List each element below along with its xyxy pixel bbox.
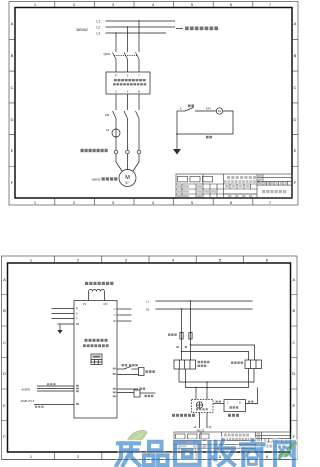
wires from inverter to contactor: [116, 94, 139, 110]
svg-text:A: A: [3, 277, 6, 282]
zone letters left: [3, 277, 6, 439]
wire to coil: [195, 110, 216, 112]
junction dots: [115, 32, 117, 34]
svg-text:C: C: [292, 340, 295, 345]
rs485 tiny labels: [47, 383, 56, 385]
svg-text:4X2P6: 4X2P6: [22, 388, 31, 392]
zone letters left: [11, 21, 14, 185]
wire L3: [106, 32, 167, 34]
pin marks right: [113, 368, 116, 398]
svg-text:B: B: [3, 308, 6, 313]
label SB: [188, 105, 194, 108]
svg-text:D: D: [3, 371, 6, 376]
terminal stub TB: [117, 374, 139, 376]
pin W wire: [117, 320, 132, 322]
pin R wire: [52, 308, 75, 310]
svg-text:L1: L1: [97, 20, 101, 24]
run wire to terminal: [132, 368, 139, 370]
svg-text:C: C: [227, 402, 229, 405]
svg-text:TA: TA: [106, 128, 109, 132]
relay wire DI: [117, 388, 138, 390]
label DC reactor DL1: [85, 282, 113, 285]
zone ticks: [9, 2, 298, 206]
svg-text:C: C: [11, 85, 14, 90]
svg-text:A: A: [292, 277, 295, 282]
label main unit: [228, 414, 239, 417]
label coil 380V: [198, 361, 210, 367]
relay coil KA1: [134, 390, 140, 397]
sheet1 power schematic: [76, 20, 218, 187]
label right: [145, 395, 154, 397]
tap L: [190, 301, 192, 360]
analog wire: [34, 404, 74, 406]
ultrasonic level meter dashed box: [192, 400, 214, 413]
svg-text:E: E: [294, 148, 297, 153]
wires to motor: [116, 154, 139, 171]
svg-text:E: E: [292, 403, 295, 408]
drawing number: [261, 445, 285, 448]
wire stub to cabinet label: [176, 28, 183, 30]
terminal circles: [114, 150, 118, 154]
svg-text:U: U: [114, 308, 116, 311]
wire labels U1 V1: [177, 346, 188, 348]
svg-text:D: D: [292, 371, 295, 376]
zone numbers bottom: [34, 200, 272, 205]
relay coil KA: [216, 108, 222, 114]
wire L2: [106, 26, 176, 28]
sheet2 inner border: [8, 263, 291, 452]
svg-text:A: A: [11, 21, 14, 26]
relay wire COM: [117, 392, 134, 394]
green leaf: [127, 430, 148, 444]
zone numbers top: [34, 2, 272, 7]
pin S wire: [52, 313, 75, 315]
keypad box: [91, 354, 102, 365]
run terminal stub TA: [117, 368, 124, 370]
rs485 wires: [37, 386, 74, 391]
svg-text:C: C: [3, 340, 6, 345]
inverter main box: [74, 301, 117, 419]
fuse 2FU: [168, 334, 177, 336]
sheet2 inverter section: [21, 282, 156, 418]
svg-text:380VAC: 380VAC: [76, 28, 89, 32]
reactor wires to P1 DO: [89, 292, 105, 301]
title text line1: [227, 176, 256, 179]
svg-text:D: D: [239, 402, 241, 405]
zone numbers top: [30, 258, 269, 263]
main unit box: [224, 400, 246, 412]
wire meter to main unit: [213, 403, 224, 405]
inverter text: [113, 79, 146, 85]
svg-text:KM: KM: [105, 113, 110, 117]
wire tap phase A: [115, 33, 117, 52]
junction: [176, 133, 178, 135]
wire main unit right: [246, 388, 258, 404]
sheet1 outer border: [9, 2, 298, 206]
ground on PE: [59, 324, 61, 330]
tap N: [181, 309, 183, 360]
green recycle swirl: [279, 443, 297, 460]
label above run switch: [122, 364, 138, 366]
svg-text:L2: L2: [97, 26, 101, 30]
wire L1: [106, 20, 176, 22]
label (to VFD cabinet): [185, 27, 218, 31]
svg-text:B: B: [294, 53, 297, 58]
label ultrasonic: [172, 414, 195, 417]
zone ticks: [2, 256, 298, 460]
svg-text:P1: P1: [83, 302, 87, 306]
wire tap phase C: [138, 21, 140, 52]
svg-text:PE: PE: [76, 323, 80, 326]
loop wire a: [179, 369, 254, 383]
svg-text:U: U: [115, 91, 117, 94]
svg-text:R: R: [76, 308, 78, 311]
pin marks left: [76, 385, 79, 405]
small cell texts: [177, 175, 287, 198]
svg-text:AVVR 2*1.0: AVVR 2*1.0: [21, 399, 35, 403]
zone numbers bottom: [30, 454, 269, 459]
cell texts: [175, 433, 260, 452]
svg-text:3~: 3~: [125, 180, 130, 185]
drop to meter 1: [195, 388, 197, 400]
svg-text:L3: L3: [97, 32, 101, 36]
svg-text:C: C: [294, 85, 297, 90]
zone letters right: [292, 277, 295, 439]
svg-text:N1: N1: [146, 308, 150, 312]
loop wire b: [186, 369, 249, 388]
svg-text:KA1: KA1: [206, 107, 211, 111]
meter output wires: [200, 413, 208, 429]
sheet1 inner border: [15, 8, 292, 199]
svg-text:KA: KA: [218, 110, 222, 113]
terminal box: [139, 368, 145, 376]
title text line2: [224, 180, 260, 183]
drop to meter 2: [206, 382, 208, 400]
label left of right box: [231, 362, 243, 364]
svg-text:B: B: [11, 53, 14, 58]
pin PE wire: [58, 323, 75, 325]
sheet1 title block: [176, 174, 292, 198]
right terminal box: [245, 360, 262, 369]
pin T wire: [52, 318, 75, 320]
analog label: [35, 406, 44, 408]
label KA1: [140, 388, 146, 390]
bus wire L: [156, 300, 253, 302]
inverter model text: [83, 339, 109, 347]
DC reactor DL1 coil: [89, 290, 105, 292]
svg-text:QF01: QF01: [104, 52, 111, 56]
branch to right box top: [191, 345, 255, 360]
pin U wire: [117, 308, 132, 310]
bus wire N: [156, 308, 253, 310]
label right of terminal box: [146, 370, 155, 373]
contactor terminal box KM1: [174, 360, 196, 369]
pin V wire: [117, 314, 132, 316]
svg-text:R: R: [115, 75, 117, 78]
svg-text:DO: DO: [104, 302, 108, 306]
svg-text:B: B: [292, 308, 295, 313]
title text line1: [224, 434, 249, 437]
sheet2 title block: [174, 432, 291, 452]
svg-text:D: D: [294, 117, 297, 122]
label bottom: [206, 136, 212, 139]
title text line2: [223, 438, 254, 440]
wire loop right: [177, 111, 233, 134]
svg-text:D: D: [11, 117, 14, 122]
sheet2 outer border: [2, 256, 298, 460]
svg-text:E: E: [11, 148, 14, 153]
lines showing through watermark: [2, 441, 298, 460]
svg-text:A: A: [294, 21, 297, 26]
inverter box U1: [106, 72, 150, 94]
svg-text:55KW: 55KW: [92, 178, 100, 182]
wire tap phase B: [127, 27, 129, 52]
wire to ground: [176, 134, 178, 149]
motor M: [119, 170, 136, 187]
sheet2 control section: [146, 300, 262, 433]
ground: [173, 149, 181, 155]
run switch: [124, 366, 132, 369]
zone letters right: [294, 21, 297, 185]
branch2 to right box: [182, 352, 249, 361]
svg-text:K: K: [180, 107, 182, 111]
label 4B2: [216, 401, 221, 403]
svg-text:E: E: [3, 403, 6, 408]
label right wire: [248, 401, 253, 403]
label (to VFD cabinet) left: [81, 149, 108, 152]
sheet1 control loop: [173, 105, 233, 155]
drawing number text: [262, 190, 286, 193]
